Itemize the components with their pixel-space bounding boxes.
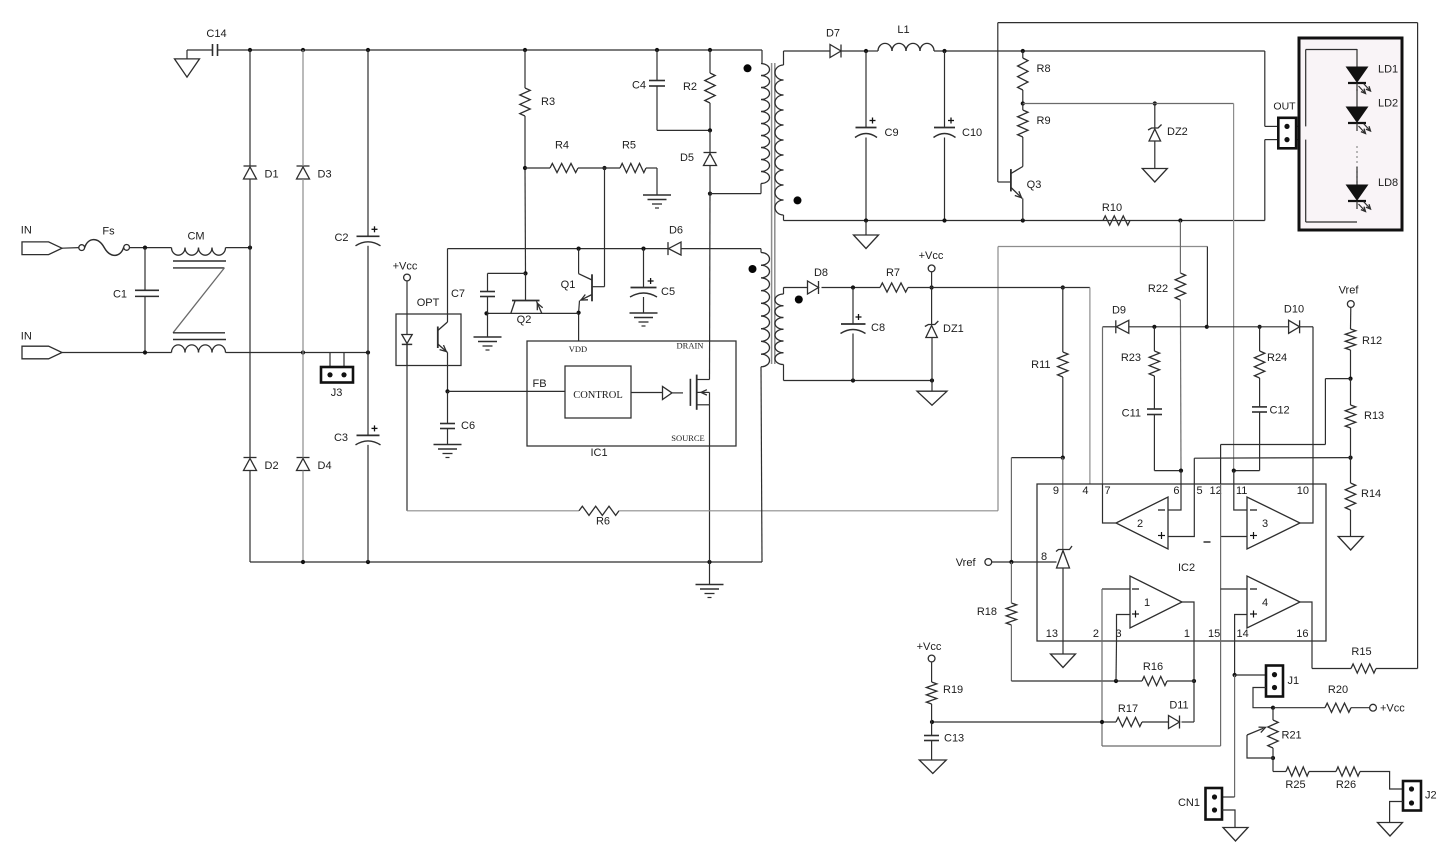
pin 12 label (1210, 485, 1222, 497)
svg-text:13: 13 (1046, 628, 1058, 640)
wire top rail (250, 49, 762, 51)
svg-text:R7: R7 (886, 267, 900, 279)
wire (1154, 104, 1156, 129)
wire (865, 51, 867, 128)
capacitor C7 (451, 288, 495, 300)
connector IN (neutral) (21, 331, 62, 359)
wire pin7 (1102, 327, 1104, 484)
wire (619, 510, 998, 512)
junction (445, 389, 449, 393)
junction (577, 247, 581, 251)
ground (434, 445, 462, 458)
svg-text:C5: C5 (661, 286, 675, 298)
wire (784, 220, 867, 222)
wire (931, 662, 933, 682)
svg-text:J3: J3 (331, 387, 343, 399)
wire (644, 248, 669, 250)
wire (226, 352, 369, 354)
wire (656, 168, 658, 195)
svg-text:10: 10 (1297, 485, 1309, 497)
ground (1338, 537, 1363, 551)
junction (1271, 756, 1275, 760)
svg-text:LD8: LD8 (1378, 177, 1398, 189)
zener DZ2 (1148, 125, 1188, 142)
wire (931, 288, 933, 325)
pin label VDD (569, 344, 587, 354)
wire (931, 741, 933, 761)
wire (343, 353, 345, 368)
wire (932, 721, 1116, 723)
pin 10 label (1297, 485, 1309, 497)
wire pin5 (1193, 458, 1195, 484)
wire (524, 116, 526, 168)
svg-text:D10: D10 (1284, 304, 1304, 316)
svg-text:R8: R8 (1037, 63, 1051, 75)
junction (143, 246, 147, 250)
connector CN1 (1178, 788, 1222, 820)
wire (1299, 326, 1313, 328)
ground (917, 391, 947, 405)
svg-text:J2: J2 (1425, 790, 1437, 802)
op-amp 3 (IC2) (1247, 497, 1300, 549)
wire drain (709, 194, 712, 380)
LED module box (1299, 38, 1402, 230)
wire (1011, 457, 1062, 459)
junction (708, 48, 712, 52)
svg-text:2: 2 (1093, 628, 1099, 640)
common-mode choke CM (bottom winding) (172, 345, 226, 353)
wire (944, 138, 946, 221)
ground (696, 585, 724, 598)
wire (367, 246, 369, 353)
potentiometer R21 (1247, 720, 1302, 748)
junction (301, 48, 305, 52)
junction (1348, 456, 1352, 460)
wire pin16 (1311, 641, 1313, 669)
wire (1022, 51, 1024, 58)
wire (998, 246, 1207, 248)
wire (783, 365, 785, 381)
junction (1100, 720, 1104, 724)
svg-text:C8: C8 (871, 322, 885, 334)
resistor R18 (977, 603, 1017, 625)
transformer core (772, 63, 775, 364)
svg-text:D7: D7 (826, 28, 840, 40)
wire (1259, 412, 1261, 471)
wire FB (448, 390, 566, 392)
wire (934, 50, 1265, 52)
wire (931, 338, 933, 381)
wire (1115, 641, 1118, 681)
common-mode choke CM (core) (173, 261, 226, 340)
ground (1051, 654, 1076, 668)
wire (1350, 458, 1352, 483)
wire (852, 334, 854, 381)
svg-text:R25: R25 (1285, 779, 1305, 791)
transformer T2 primary phase dot (749, 265, 757, 273)
svg-text:R10: R10 (1102, 202, 1122, 214)
svg-text:SOURCE: SOURCE (671, 433, 705, 443)
wire (1022, 137, 1024, 167)
wire (249, 50, 251, 166)
wire (1325, 378, 1350, 380)
transistor Q1 (561, 249, 605, 313)
ground (854, 235, 879, 249)
wire (784, 50, 831, 52)
svg-text:OUT: OUT (1273, 101, 1296, 113)
svg-text:D4: D4 (318, 460, 332, 472)
label OUT (1273, 101, 1296, 113)
resistor R20 (1325, 684, 1351, 712)
svg-text:IN: IN (21, 331, 32, 343)
wire (656, 50, 658, 81)
fuse Fs (79, 226, 130, 256)
svg-text:R23: R23 (1121, 352, 1141, 364)
svg-text:R24: R24 (1267, 352, 1287, 364)
svg-text:R4: R4 (555, 140, 569, 152)
wire (852, 288, 854, 325)
wire (931, 381, 933, 392)
resistor R11 (1031, 352, 1068, 377)
svg-text:8: 8 (1041, 551, 1047, 563)
wire (1360, 772, 1403, 790)
wire (997, 23, 999, 182)
wire (931, 722, 933, 736)
junction (523, 48, 527, 52)
diode D3 (297, 166, 332, 181)
wire pin10 (1312, 327, 1314, 484)
svg-text:R11: R11 (1031, 359, 1050, 371)
svg-text:DRAIN: DRAIN (677, 341, 704, 351)
svg-text:VDD: VDD (569, 344, 587, 354)
resistor R13 (1345, 405, 1384, 428)
wire (1235, 674, 1266, 676)
wire (1259, 378, 1261, 407)
svg-text:R3: R3 (541, 96, 555, 108)
junction (930, 378, 934, 382)
junction (301, 560, 305, 564)
wire (447, 429, 449, 445)
wire (865, 138, 867, 221)
svg-text:D11: D11 (1169, 700, 1188, 712)
reference zener (IC2 pin 8) (1041, 546, 1072, 568)
wire (643, 249, 645, 288)
wire (1300, 602, 1312, 641)
LED LD8 (1347, 167, 1399, 212)
svg-text:4: 4 (1082, 485, 1088, 497)
wire (784, 287, 808, 289)
wire (1234, 470, 1260, 472)
svg-text:C4: C4 (632, 80, 646, 92)
transistor Q3 (998, 167, 1042, 221)
wire (1102, 588, 1130, 590)
svg-text:R2: R2 (683, 81, 697, 93)
svg-text:R20: R20 (1328, 684, 1348, 696)
svg-text:R16: R16 (1143, 661, 1163, 673)
svg-text:D5: D5 (680, 152, 694, 164)
junction (1232, 469, 1236, 473)
wire pin13 (1062, 568, 1064, 641)
wire (1221, 444, 1326, 446)
svg-text:R21: R21 (1282, 730, 1302, 742)
wire (1194, 457, 1350, 460)
wire (1296, 139, 1306, 141)
wire (783, 51, 785, 65)
svg-text:D2: D2 (265, 460, 279, 472)
svg-text:11: 11 (1236, 485, 1247, 497)
wire (657, 129, 710, 131)
svg-text:DZ1: DZ1 (943, 323, 964, 335)
junction (248, 246, 252, 250)
op-amp 1 (IC2) (1130, 576, 1182, 628)
capacitor C1 (113, 289, 159, 301)
junction (1271, 706, 1275, 710)
ground (1223, 828, 1248, 842)
wire (1221, 536, 1247, 538)
pin 16 label (1296, 628, 1308, 640)
pin 4 label (1082, 485, 1088, 497)
capacitor C4 (632, 80, 665, 92)
junction (301, 350, 305, 354)
wire (144, 296, 146, 352)
junction (930, 720, 934, 724)
terminal +Vcc (917, 641, 942, 662)
svg-text:1: 1 (1144, 597, 1150, 609)
svg-text:CN1: CN1 (1178, 797, 1200, 809)
wire pin8 (992, 561, 1057, 563)
svg-text:FB: FB (532, 378, 546, 390)
wire (302, 471, 304, 563)
transformer T2 secondary phase dot (795, 296, 803, 304)
wire (487, 312, 579, 314)
wire (145, 352, 172, 354)
resistor R19 (926, 682, 963, 704)
wire (1221, 588, 1247, 590)
terminal +Vcc (1370, 703, 1406, 715)
wire (407, 510, 579, 512)
svg-text:OPT: OPT (417, 297, 440, 309)
junction (708, 128, 712, 132)
wire (1167, 680, 1194, 682)
svg-text:+Vcc: +Vcc (1380, 703, 1405, 715)
svg-text:9: 9 (1053, 485, 1059, 497)
wire (682, 248, 762, 250)
wire (1350, 350, 1352, 379)
wire (1222, 796, 1235, 798)
junction (708, 192, 712, 196)
wire (447, 391, 449, 423)
wire (866, 50, 878, 52)
pin 2 label (1093, 628, 1099, 640)
wire bottom rail (250, 561, 762, 563)
diode D10 (1284, 304, 1304, 334)
junction (641, 247, 645, 251)
wire (1234, 484, 1247, 510)
wire (783, 215, 785, 221)
inductor L1 (878, 24, 934, 51)
wire (578, 167, 620, 169)
wire (1309, 771, 1336, 773)
optocoupler OPT (396, 297, 461, 366)
wire (525, 167, 550, 169)
svg-text:C2: C2 (334, 232, 348, 244)
wire (1312, 668, 1351, 670)
junction (1009, 560, 1013, 564)
junction (1205, 325, 1209, 329)
wire (1350, 510, 1352, 537)
wire (1253, 688, 1273, 708)
optocoupler LED (402, 314, 412, 366)
ground (1142, 169, 1167, 183)
resistor R23 (1121, 351, 1160, 376)
optocoupler phototransistor (438, 249, 448, 366)
wire (1265, 139, 1279, 141)
wire (187, 49, 213, 51)
wire pin6 (1180, 471, 1182, 484)
transformer T1 primary winding (761, 64, 770, 184)
resistor R16 (1142, 661, 1167, 686)
wire pin12 (1220, 445, 1222, 485)
wire (1103, 484, 1117, 523)
junction (930, 285, 934, 289)
op-amp 4 (IC2) (1247, 576, 1300, 628)
pin 5 label (1197, 485, 1203, 497)
common-mode choke CM (top winding) (172, 231, 226, 256)
svg-text:R5: R5 (622, 140, 636, 152)
svg-text:2: 2 (1137, 518, 1143, 530)
junction (1258, 325, 1262, 329)
svg-text:C6: C6 (461, 420, 475, 432)
junction (1021, 218, 1025, 222)
junction (1192, 679, 1196, 683)
wire (1117, 615, 1131, 642)
wire (1154, 470, 1181, 472)
wire (1010, 625, 1012, 681)
connector OUT (1278, 118, 1296, 149)
pin label FB (532, 378, 546, 390)
wire (1168, 484, 1194, 537)
wire (656, 86, 658, 130)
wire (1062, 377, 1064, 458)
diode D7 (826, 28, 841, 58)
svg-text:14: 14 (1237, 628, 1249, 640)
junction (655, 48, 659, 52)
diode D8 (808, 267, 829, 294)
wire (1273, 707, 1325, 709)
wire (1182, 602, 1194, 641)
svg-text:R22: R22 (1148, 283, 1168, 295)
svg-text:J1: J1 (1288, 675, 1300, 687)
wire (1062, 288, 1064, 353)
svg-text:IC1: IC1 (590, 447, 607, 459)
wire (130, 247, 172, 249)
pin 13 label (1046, 628, 1058, 640)
wire (709, 166, 711, 194)
wire (1306, 49, 1357, 51)
control block CONTROL (565, 366, 631, 418)
IC IC1 (box) (527, 341, 736, 459)
junction (1061, 285, 1065, 289)
wire (646, 167, 657, 169)
resistor R9 (1018, 110, 1051, 137)
wire (822, 287, 881, 289)
connector J1 (1266, 666, 1299, 697)
wire (710, 193, 761, 195)
LED LD2 (1347, 89, 1399, 134)
wire (761, 367, 762, 562)
wire (784, 380, 933, 382)
pin 15 label (1208, 628, 1220, 640)
wire (1273, 771, 1286, 773)
wire pin9 (1062, 458, 1064, 550)
wire (62, 352, 145, 354)
transformer T2 secondary winding (775, 294, 784, 365)
junction (1179, 469, 1183, 473)
wire (1306, 221, 1357, 223)
wire (144, 248, 146, 291)
svg-text:C13: C13 (944, 733, 964, 745)
svg-text:IC2: IC2 (1178, 562, 1195, 574)
diode D5 (680, 152, 717, 166)
wire (1324, 379, 1326, 445)
wire (866, 220, 1265, 222)
wire (1350, 307, 1352, 329)
ground (1378, 823, 1403, 837)
svg-text:+Vcc: +Vcc (919, 250, 944, 262)
wire (1265, 125, 1279, 127)
wire (218, 49, 251, 51)
wire (302, 179, 304, 458)
svg-text:6: 6 (1173, 485, 1179, 497)
wire (1233, 104, 1235, 471)
wire (709, 103, 711, 130)
junction (523, 271, 527, 275)
wire (367, 353, 369, 436)
wire (1220, 484, 1222, 641)
wire (1179, 221, 1181, 274)
resistor R25 (1285, 767, 1309, 791)
ground (919, 760, 946, 774)
resistor R22 (1148, 273, 1186, 300)
resistor R4 (550, 140, 578, 173)
junction (523, 166, 527, 170)
wire (1351, 707, 1370, 709)
svg-text:1: 1 (1184, 628, 1190, 640)
wire (329, 353, 331, 368)
wire (1206, 247, 1208, 327)
wire (997, 247, 999, 511)
svg-text:R17: R17 (1118, 703, 1138, 715)
pin label SOURCE (671, 433, 705, 443)
connector J3 (321, 367, 353, 399)
svg-text:D6: D6 (669, 225, 683, 237)
svg-text:CONTROL: CONTROL (573, 390, 623, 401)
resistor R7 (880, 267, 908, 292)
junction (1152, 325, 1156, 329)
wire (1062, 641, 1064, 654)
svg-text:16: 16 (1296, 628, 1308, 640)
capacitor C3 (334, 425, 381, 445)
wire (944, 51, 946, 128)
resistor R5 (620, 140, 646, 173)
wire (643, 297, 645, 313)
wire (249, 471, 251, 563)
wire pin1 (1193, 641, 1195, 722)
svg-text:+Vcc: +Vcc (917, 641, 942, 653)
wire (249, 179, 251, 458)
svg-text:R13: R13 (1364, 410, 1384, 422)
resistor R2 (683, 73, 715, 103)
